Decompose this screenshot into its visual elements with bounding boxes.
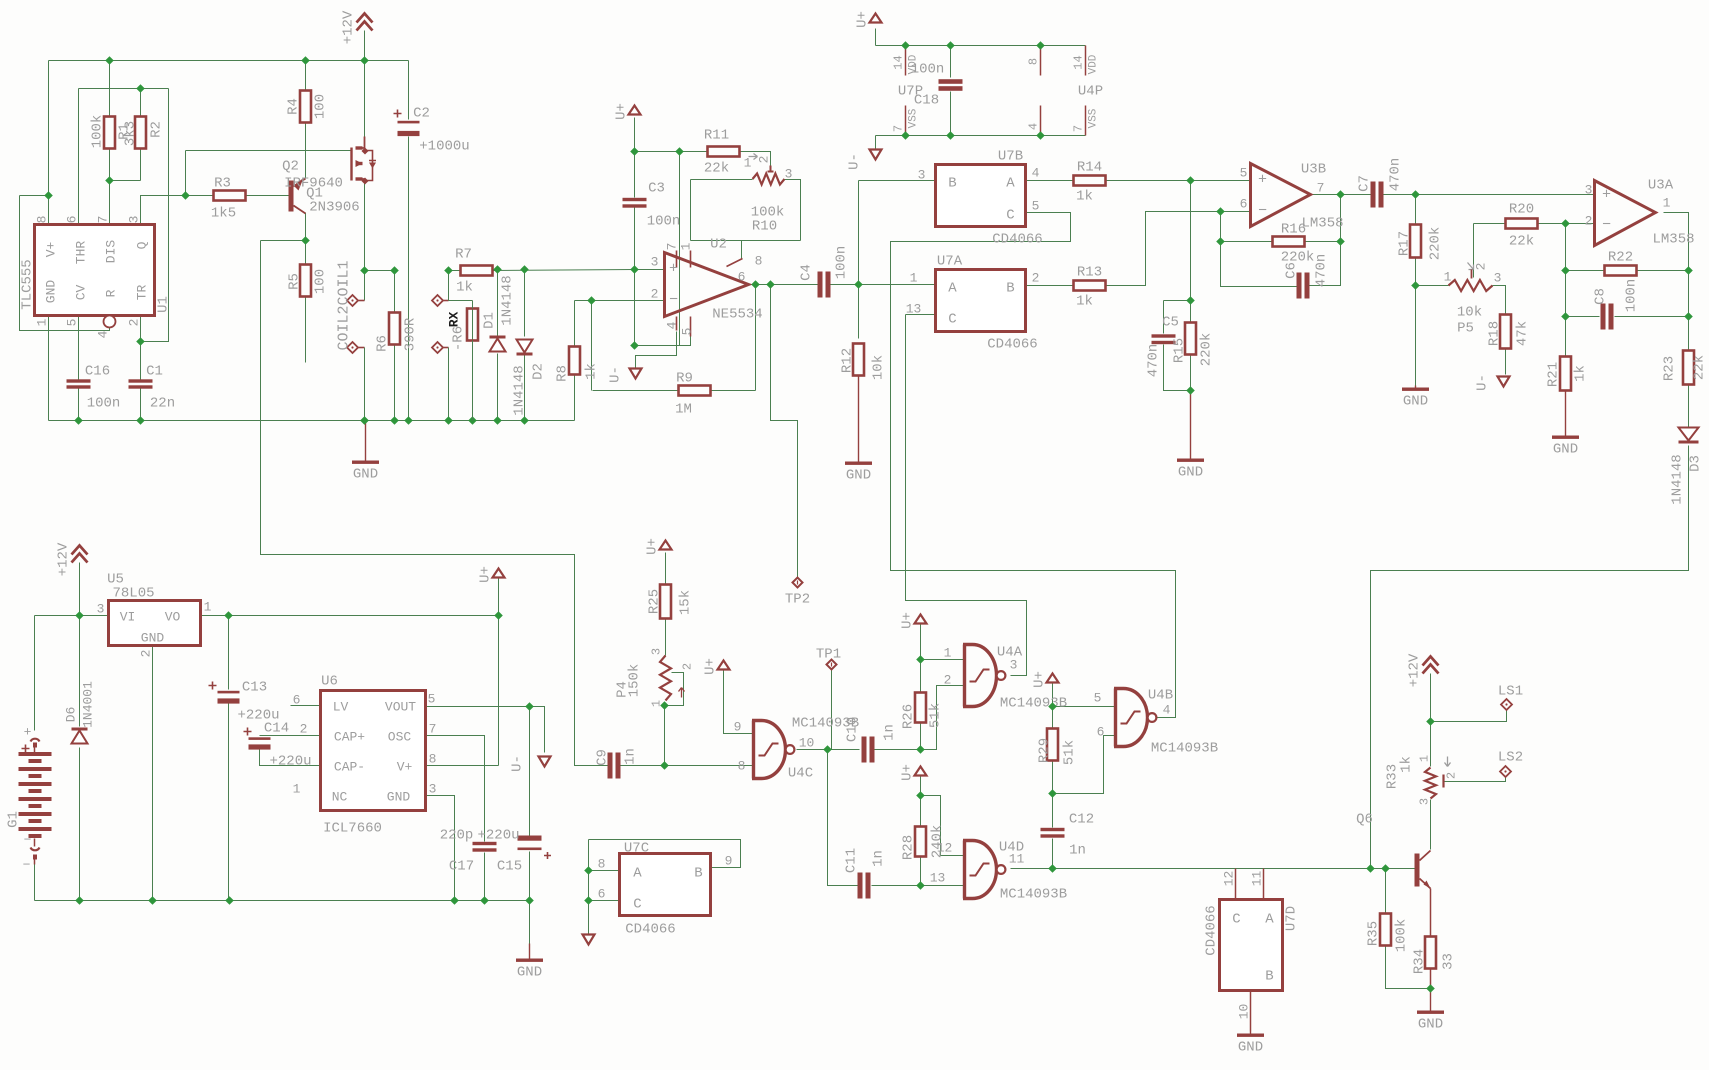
svg-text:D6: D6 xyxy=(64,707,79,723)
svg-text:GND: GND xyxy=(1403,394,1428,410)
svg-text:100n: 100n xyxy=(647,214,681,230)
svg-text:V+: V+ xyxy=(397,760,413,775)
svg-text:2: 2 xyxy=(127,319,142,327)
svg-text:+: + xyxy=(669,261,678,278)
svg-text:12: 12 xyxy=(1222,871,1237,887)
svg-text:R13: R13 xyxy=(1077,265,1102,281)
svg-text:LS2: LS2 xyxy=(1498,750,1523,766)
svg-text:+12V: +12V xyxy=(341,10,357,44)
svg-text:12: 12 xyxy=(937,841,953,856)
svg-text:220k: 220k xyxy=(1199,333,1215,367)
svg-text:1: 1 xyxy=(944,646,952,661)
svg-text:C14: C14 xyxy=(264,721,289,737)
svg-text:13: 13 xyxy=(906,302,922,317)
svg-text:470n: 470n xyxy=(1146,344,1162,378)
svg-text:TP2: TP2 xyxy=(785,592,810,608)
svg-text:R10: R10 xyxy=(752,219,777,235)
svg-text:CD4066: CD4066 xyxy=(992,232,1042,248)
svg-text:R26: R26 xyxy=(901,704,917,729)
svg-text:MC14093B: MC14093B xyxy=(1000,696,1067,712)
svg-text:R17: R17 xyxy=(1397,231,1413,256)
svg-text:R23: R23 xyxy=(1662,356,1678,381)
svg-text:22k: 22k xyxy=(704,161,729,177)
svg-text:GND: GND xyxy=(1553,442,1578,458)
svg-text:U7D: U7D xyxy=(1284,906,1300,931)
svg-text:U6: U6 xyxy=(321,674,338,690)
svg-text:C5: C5 xyxy=(1162,315,1179,331)
svg-text:C: C xyxy=(1006,208,1014,224)
svg-text:LM358: LM358 xyxy=(1652,232,1694,248)
svg-text:CD4066: CD4066 xyxy=(625,922,675,938)
svg-text:ICL7660: ICL7660 xyxy=(323,821,382,837)
svg-text:U7B: U7B xyxy=(998,149,1023,165)
svg-text:1k: 1k xyxy=(584,363,600,380)
svg-text:2: 2 xyxy=(1474,263,1489,271)
svg-text:OSC: OSC xyxy=(388,730,412,745)
svg-text:R6: R6 xyxy=(375,335,391,352)
svg-text:U+: U+ xyxy=(900,612,916,629)
svg-text:−: − xyxy=(669,292,678,309)
svg-text:C16: C16 xyxy=(85,364,110,380)
svg-text:GND: GND xyxy=(1238,1040,1263,1056)
svg-text:1k: 1k xyxy=(1573,365,1589,382)
svg-text:100n: 100n xyxy=(911,62,945,78)
svg-text:6: 6 xyxy=(293,693,301,708)
svg-text:MC14093B: MC14093B xyxy=(1151,741,1218,757)
svg-text:C: C xyxy=(948,312,956,328)
svg-text:C12: C12 xyxy=(1069,812,1094,828)
svg-text:14: 14 xyxy=(892,55,906,69)
svg-text:5: 5 xyxy=(428,692,436,707)
svg-text:B: B xyxy=(1265,969,1273,985)
svg-text:U4A: U4A xyxy=(997,645,1023,661)
svg-text:15k: 15k xyxy=(678,590,694,615)
svg-text:3: 3 xyxy=(651,255,659,270)
svg-text:1k: 1k xyxy=(1076,189,1093,205)
svg-text:U+: U+ xyxy=(478,566,494,583)
svg-text:22k: 22k xyxy=(1509,234,1534,250)
svg-text:GND: GND xyxy=(1178,465,1203,481)
svg-text:3: 3 xyxy=(97,602,105,617)
svg-text:U+: U+ xyxy=(614,103,630,120)
svg-text:1: 1 xyxy=(744,156,752,171)
svg-text:1k: 1k xyxy=(1076,294,1093,310)
svg-text:1N4148: 1N4148 xyxy=(1670,454,1686,504)
svg-text:R28: R28 xyxy=(901,835,917,860)
svg-text:9: 9 xyxy=(734,720,742,735)
svg-text:1: 1 xyxy=(1444,270,1452,285)
svg-text:CV: CV xyxy=(74,285,89,301)
svg-text:8: 8 xyxy=(738,759,746,774)
svg-text:GND: GND xyxy=(44,280,59,304)
svg-text:U+: U+ xyxy=(1032,671,1048,688)
svg-text:LV: LV xyxy=(333,700,349,715)
svg-text:C7: C7 xyxy=(1357,175,1373,192)
svg-text:U-: U- xyxy=(847,153,863,170)
svg-text:7: 7 xyxy=(665,243,680,251)
svg-text:U1: U1 xyxy=(156,296,172,313)
svg-text:U+: U+ xyxy=(645,538,661,555)
svg-text:33: 33 xyxy=(1441,953,1457,970)
svg-text:1: 1 xyxy=(1418,755,1432,762)
svg-text:10k: 10k xyxy=(1457,305,1482,321)
svg-text:R12: R12 xyxy=(840,348,856,373)
svg-text:5: 5 xyxy=(1094,691,1102,706)
svg-text:U-: U- xyxy=(1475,374,1491,391)
svg-text:DIS: DIS xyxy=(104,240,119,264)
svg-text:1k5: 1k5 xyxy=(211,206,236,222)
svg-text:4: 4 xyxy=(1027,123,1041,130)
svg-text:COIL2COIL1: COIL2COIL1 xyxy=(336,260,353,350)
svg-text:C1: C1 xyxy=(146,364,163,380)
svg-text:100n: 100n xyxy=(834,246,850,280)
svg-text:1: 1 xyxy=(293,782,301,797)
svg-text:GND: GND xyxy=(517,965,542,981)
svg-text:13: 13 xyxy=(930,871,946,886)
svg-text:A: A xyxy=(948,281,957,297)
svg-text:U3B: U3B xyxy=(1301,162,1326,178)
svg-text:1n: 1n xyxy=(623,748,639,765)
svg-text:−: − xyxy=(1258,203,1267,220)
svg-text:3k3: 3k3 xyxy=(123,121,139,146)
svg-text:A: A xyxy=(1006,176,1015,192)
svg-text:1N4148: 1N4148 xyxy=(512,365,528,415)
svg-text:100: 100 xyxy=(313,94,329,119)
svg-text:51k: 51k xyxy=(928,703,944,728)
svg-text:U+: U+ xyxy=(900,764,916,781)
svg-text:A: A xyxy=(633,866,642,882)
svg-text:220k: 220k xyxy=(1428,227,1444,261)
svg-text:7: 7 xyxy=(1317,181,1325,196)
svg-text:10k: 10k xyxy=(871,355,887,380)
svg-text:2: 2 xyxy=(1032,271,1040,286)
svg-text:4: 4 xyxy=(1163,703,1171,718)
svg-text:1n: 1n xyxy=(871,850,887,867)
svg-text:+12V: +12V xyxy=(56,542,72,576)
svg-text:C15: C15 xyxy=(497,859,522,875)
svg-text:U3A: U3A xyxy=(1648,178,1674,194)
svg-text:R11: R11 xyxy=(704,128,729,144)
svg-text:7: 7 xyxy=(429,722,437,737)
svg-text:C13: C13 xyxy=(242,680,267,696)
svg-text:2: 2 xyxy=(1445,772,1459,779)
svg-text:C4: C4 xyxy=(799,264,815,281)
svg-text:R16: R16 xyxy=(1281,222,1306,238)
svg-text:VOUT: VOUT xyxy=(385,700,416,715)
svg-text:Q2: Q2 xyxy=(282,159,299,175)
svg-text:1: 1 xyxy=(1663,196,1671,211)
svg-text:C: C xyxy=(1232,912,1240,928)
svg-text:1: 1 xyxy=(204,600,212,615)
svg-text:22k: 22k xyxy=(1692,355,1708,380)
svg-text:R29: R29 xyxy=(1037,738,1053,763)
svg-text:+12V: +12V xyxy=(1407,653,1423,687)
svg-text:U2: U2 xyxy=(710,237,727,253)
svg-text:470n: 470n xyxy=(1314,254,1330,288)
svg-text:78L05: 78L05 xyxy=(112,586,154,602)
svg-text:R: R xyxy=(104,289,119,297)
svg-text:VDD: VDD xyxy=(1088,54,1100,74)
svg-text:−: − xyxy=(23,858,31,873)
svg-text:MC14093B: MC14093B xyxy=(1000,887,1067,903)
svg-text:51k: 51k xyxy=(1062,740,1078,765)
svg-text:6: 6 xyxy=(1097,725,1105,740)
svg-text:7: 7 xyxy=(892,125,906,132)
svg-text:10: 10 xyxy=(799,736,815,751)
svg-text:390R: 390R xyxy=(403,317,419,351)
svg-text:6: 6 xyxy=(738,270,746,285)
svg-text:100: 100 xyxy=(313,269,329,294)
svg-text:3: 3 xyxy=(1418,798,1432,805)
svg-text:C17: C17 xyxy=(449,859,474,875)
svg-text:8: 8 xyxy=(598,857,606,872)
svg-text:1N4148: 1N4148 xyxy=(500,275,516,325)
svg-text:U4B: U4B xyxy=(1148,688,1173,704)
svg-text:100n: 100n xyxy=(1624,279,1640,313)
svg-text:11: 11 xyxy=(1250,871,1265,887)
svg-text:U-: U- xyxy=(608,366,624,383)
svg-text:+: + xyxy=(1602,187,1611,204)
svg-text:R20: R20 xyxy=(1509,202,1534,218)
svg-text:C3: C3 xyxy=(648,181,665,197)
svg-text:U7C: U7C xyxy=(624,841,649,857)
svg-text:3: 3 xyxy=(1585,183,1593,198)
svg-text:NE5534: NE5534 xyxy=(712,307,762,323)
svg-text:5: 5 xyxy=(1032,199,1040,214)
svg-text:5: 5 xyxy=(680,328,695,336)
svg-text:G1: G1 xyxy=(6,811,22,828)
svg-text:CAP+: CAP+ xyxy=(334,730,365,745)
svg-text:1M: 1M xyxy=(675,402,692,418)
svg-text:B: B xyxy=(694,866,702,882)
svg-text:A: A xyxy=(1265,912,1274,928)
svg-text:U4C: U4C xyxy=(788,766,813,782)
svg-text:2: 2 xyxy=(139,650,154,658)
svg-text:U7A: U7A xyxy=(937,254,963,270)
svg-text:2: 2 xyxy=(300,722,308,737)
svg-text:LS1: LS1 xyxy=(1498,684,1523,700)
svg-text:R5: R5 xyxy=(287,273,303,290)
svg-text:−: − xyxy=(24,833,32,848)
svg-text:R4: R4 xyxy=(286,98,302,115)
svg-text:9: 9 xyxy=(725,854,733,869)
svg-text:C2: C2 xyxy=(413,106,430,122)
svg-text:R3: R3 xyxy=(214,176,231,192)
svg-text:C11: C11 xyxy=(844,848,860,873)
svg-text:U-: U- xyxy=(510,755,526,772)
svg-text:R15: R15 xyxy=(1172,338,1188,363)
svg-text:1: 1 xyxy=(35,318,50,326)
svg-text:C6: C6 xyxy=(1284,262,1300,279)
svg-text:2: 2 xyxy=(651,287,659,302)
svg-text:4: 4 xyxy=(1032,166,1040,181)
svg-text:1n: 1n xyxy=(1069,843,1086,859)
svg-text:C8: C8 xyxy=(1593,288,1609,305)
svg-text:D2: D2 xyxy=(531,363,547,380)
svg-text:2: 2 xyxy=(944,673,952,688)
svg-text:GND: GND xyxy=(141,631,165,646)
svg-text:1: 1 xyxy=(679,242,694,250)
svg-text:CD4066: CD4066 xyxy=(1204,905,1220,955)
svg-text:THR: THR xyxy=(74,241,89,265)
svg-text:R22: R22 xyxy=(1608,250,1633,266)
svg-text:3: 3 xyxy=(785,167,793,182)
svg-text:RX: RX xyxy=(447,312,462,328)
svg-text:4: 4 xyxy=(96,330,111,338)
svg-text:GND: GND xyxy=(846,468,871,484)
svg-text:U4P: U4P xyxy=(1078,84,1103,100)
svg-text:CAP-: CAP- xyxy=(334,760,365,775)
svg-text:B: B xyxy=(1006,281,1014,297)
svg-text:D1: D1 xyxy=(482,312,498,329)
svg-text:R9: R9 xyxy=(676,371,693,387)
svg-text:1k: 1k xyxy=(1399,756,1415,773)
svg-text:R18: R18 xyxy=(1487,321,1503,346)
svg-text:R21: R21 xyxy=(1546,362,1562,387)
svg-text:U+: U+ xyxy=(703,658,719,675)
svg-text:R25: R25 xyxy=(647,589,663,614)
svg-text:NC: NC xyxy=(332,790,348,805)
svg-text:100k: 100k xyxy=(90,115,106,149)
svg-text:7: 7 xyxy=(96,216,111,224)
svg-text:8: 8 xyxy=(429,752,437,767)
svg-text:P5: P5 xyxy=(1457,321,1474,337)
svg-text:1k: 1k xyxy=(456,280,473,296)
svg-text:+220u: +220u xyxy=(269,754,311,770)
svg-text:Q6: Q6 xyxy=(1356,812,1373,828)
svg-text:150k: 150k xyxy=(627,664,643,698)
svg-text:6: 6 xyxy=(598,887,606,902)
svg-text:5: 5 xyxy=(65,319,80,327)
svg-text:47k: 47k xyxy=(1515,321,1531,346)
svg-text:R7: R7 xyxy=(455,247,472,263)
svg-text:TR: TR xyxy=(135,285,150,301)
svg-text:C: C xyxy=(633,897,641,913)
svg-text:8: 8 xyxy=(1027,58,1041,65)
svg-text:8: 8 xyxy=(35,216,50,224)
svg-text:8: 8 xyxy=(755,254,763,269)
svg-text:6: 6 xyxy=(65,216,80,224)
svg-text:2: 2 xyxy=(1585,214,1593,229)
svg-text:D3: D3 xyxy=(1688,455,1704,472)
svg-text:VSS: VSS xyxy=(908,108,920,128)
svg-text:VI: VI xyxy=(120,610,136,625)
svg-text:6: 6 xyxy=(1240,197,1248,212)
svg-text:TLC555: TLC555 xyxy=(20,259,36,309)
svg-text:3: 3 xyxy=(650,648,664,655)
svg-text:5: 5 xyxy=(1240,166,1248,181)
svg-text:B: B xyxy=(948,176,956,192)
svg-text:220p: 220p xyxy=(440,828,474,844)
svg-text:TP1: TP1 xyxy=(816,647,841,663)
svg-text:100k: 100k xyxy=(1394,919,1410,953)
svg-text:R2: R2 xyxy=(149,121,165,138)
svg-text:-R6: -R6 xyxy=(451,326,467,351)
svg-text:GND: GND xyxy=(387,790,411,805)
svg-text:2: 2 xyxy=(681,663,695,670)
svg-text:3: 3 xyxy=(127,216,142,224)
svg-text:14: 14 xyxy=(1072,55,1086,69)
svg-text:GND: GND xyxy=(353,467,378,483)
svg-text:3: 3 xyxy=(918,168,926,183)
svg-text:1N4001: 1N4001 xyxy=(81,681,96,728)
svg-text:+: + xyxy=(1258,172,1267,189)
svg-text:+: + xyxy=(24,725,32,740)
svg-text:R14: R14 xyxy=(1077,160,1102,176)
svg-text:22n: 22n xyxy=(150,396,175,412)
svg-text:4: 4 xyxy=(665,321,680,329)
svg-text:GND: GND xyxy=(1418,1017,1443,1033)
svg-text:R34: R34 xyxy=(1412,949,1428,974)
svg-text:1n: 1n xyxy=(882,724,898,741)
svg-text:2N3906: 2N3906 xyxy=(309,200,359,216)
svg-text:470n: 470n xyxy=(1388,158,1404,192)
svg-text:C18: C18 xyxy=(914,93,939,109)
svg-text:100n: 100n xyxy=(87,396,121,412)
svg-text:CD4066: CD4066 xyxy=(987,337,1037,353)
svg-text:V+: V+ xyxy=(44,242,59,258)
svg-text:U+: U+ xyxy=(855,11,871,28)
svg-text:R8: R8 xyxy=(555,365,571,382)
svg-text:−: − xyxy=(1602,217,1611,234)
svg-text:+220u: +220u xyxy=(477,828,519,844)
svg-text:1: 1 xyxy=(910,271,918,286)
svg-text:R35: R35 xyxy=(1366,921,1382,946)
svg-text:LM358: LM358 xyxy=(1301,216,1343,232)
svg-text:C9: C9 xyxy=(595,749,611,766)
svg-text:VO: VO xyxy=(165,610,181,625)
svg-text:U4D: U4D xyxy=(999,840,1024,856)
svg-text:VSS: VSS xyxy=(1088,108,1100,128)
svg-text:Q: Q xyxy=(135,241,150,249)
svg-text:7: 7 xyxy=(1072,125,1086,132)
svg-text:+1000u: +1000u xyxy=(419,139,469,155)
svg-text:C10: C10 xyxy=(845,717,861,742)
svg-text:2: 2 xyxy=(757,156,772,164)
svg-text:3: 3 xyxy=(429,782,437,797)
svg-text:3: 3 xyxy=(1494,271,1502,286)
svg-text:10: 10 xyxy=(1237,1004,1252,1020)
